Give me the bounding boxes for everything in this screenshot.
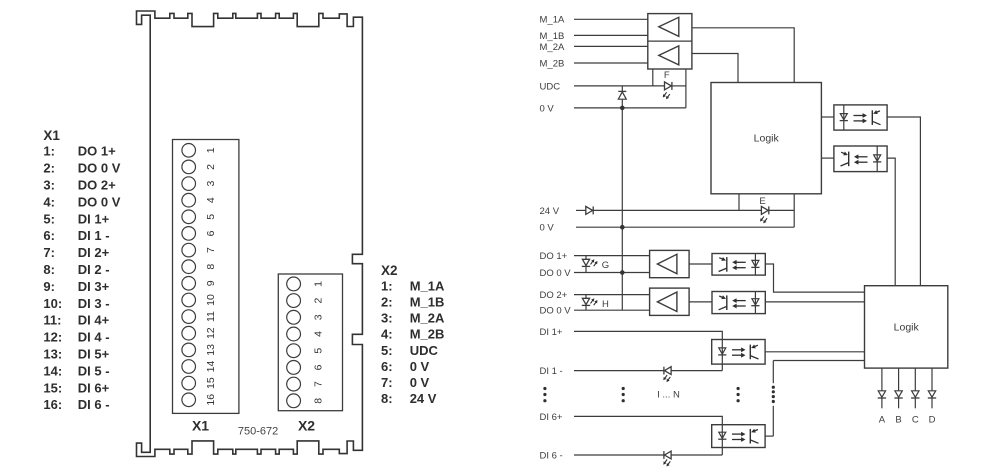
svg-text:2:: 2: bbox=[381, 295, 393, 310]
svg-text:E: E bbox=[759, 196, 765, 207]
ellipsis dots column 2 bbox=[622, 387, 625, 390]
svg-text:9:: 9: bbox=[43, 279, 55, 294]
svg-text:4:: 4: bbox=[43, 194, 55, 209]
svg-text:24 V: 24 V bbox=[410, 391, 437, 406]
svg-text:0 V: 0 V bbox=[540, 103, 555, 114]
wire 24V rail bbox=[576, 209, 586, 211]
svg-text:DI 1 -: DI 1 - bbox=[540, 366, 563, 377]
LED G light arrows bbox=[591, 261, 594, 264]
svg-text:4: 4 bbox=[205, 197, 217, 203]
svg-text:DI 3+: DI 3+ bbox=[78, 279, 110, 294]
svg-text:Logik: Logik bbox=[894, 321, 920, 333]
svg-text:DI 4 -: DI 4 - bbox=[78, 330, 110, 345]
wire U2 ground stub to 0V bbox=[793, 194, 795, 227]
svg-text:DO 0 V: DO 0 V bbox=[78, 161, 121, 176]
svg-text:DI 5+: DI 5+ bbox=[78, 347, 110, 362]
svg-text:6:: 6: bbox=[381, 359, 393, 374]
wire U1 ch2 output to Logik U2 bbox=[692, 54, 738, 83]
wire M_1A to receiver U1 bbox=[574, 18, 648, 20]
wire 0V rail (upper) bbox=[574, 107, 686, 109]
X1 pin 2 contact bbox=[182, 160, 196, 174]
svg-text:6:: 6: bbox=[43, 228, 55, 243]
wire OK6 LED cathode down to DI 6- bbox=[721, 448, 723, 456]
X2 pin 8 contact bbox=[287, 394, 301, 408]
svg-text:16:: 16: bbox=[43, 397, 62, 412]
svg-text:15: 15 bbox=[205, 377, 217, 389]
diode D1 (UDC reverse protection) bbox=[618, 90, 626, 92]
svg-text:0 V: 0 V bbox=[410, 375, 430, 390]
svg-text:M_2B: M_2B bbox=[540, 58, 565, 69]
svg-text:M_2A: M_2A bbox=[410, 311, 445, 326]
svg-text:M_2B: M_2B bbox=[410, 327, 445, 342]
X1 pin 5 contact bbox=[182, 210, 196, 224]
ellipsis dots column 4 (bus riser) bbox=[772, 386, 775, 389]
svg-text:8:: 8: bbox=[381, 391, 393, 406]
optocoupler OK5 bbox=[712, 340, 765, 365]
X1 pin 8 contact bbox=[182, 260, 196, 274]
optocoupler OK3 bbox=[712, 254, 765, 276]
svg-text:12: 12 bbox=[205, 327, 217, 339]
svg-text:8: 8 bbox=[312, 398, 324, 404]
connector X1 body bbox=[173, 140, 239, 414]
svg-text:2: 2 bbox=[312, 298, 324, 304]
svg-text:DO 0 V: DO 0 V bbox=[540, 268, 572, 279]
junction dot DO 0V ch1 bbox=[620, 270, 625, 275]
svg-text:6: 6 bbox=[205, 230, 217, 236]
LED F light arrows bbox=[664, 92, 667, 95]
svg-text:3: 3 bbox=[312, 314, 324, 320]
svg-text:5: 5 bbox=[312, 348, 324, 354]
connector X2 body bbox=[278, 274, 342, 411]
LED DI1 light arrows bbox=[665, 375, 668, 378]
wire E cathode bbox=[769, 209, 794, 211]
X2 pin 2 contact bbox=[287, 294, 301, 308]
wire 0V rail (lower) bbox=[576, 226, 794, 228]
svg-text:DI 5 -: DI 5 - bbox=[78, 363, 110, 378]
svg-text:10: 10 bbox=[205, 294, 217, 306]
svg-text:DO 2+: DO 2+ bbox=[78, 178, 116, 193]
svg-text:A: A bbox=[879, 415, 886, 426]
svg-text:D: D bbox=[929, 415, 936, 426]
svg-text:14: 14 bbox=[205, 361, 217, 373]
svg-text:4: 4 bbox=[312, 331, 324, 337]
svg-text:DO 0 V: DO 0 V bbox=[78, 194, 121, 209]
wire DO 0V (ch1) bbox=[574, 272, 650, 274]
optocoupler OK1 bbox=[834, 105, 887, 130]
wire 24V rail continued bbox=[593, 209, 761, 211]
svg-text:DI 2 -: DI 2 - bbox=[78, 262, 110, 277]
svg-text:DI 1+: DI 1+ bbox=[78, 211, 110, 226]
wire OK2 output to Logik U5 bbox=[887, 158, 895, 286]
svg-text:3: 3 bbox=[205, 181, 217, 187]
LED F bbox=[665, 82, 672, 90]
svg-text:X1: X1 bbox=[192, 417, 209, 433]
LED DI1 (channel status) bbox=[663, 367, 665, 375]
LED E bbox=[761, 206, 768, 214]
svg-text:8:: 8: bbox=[43, 262, 55, 277]
svg-text:10:: 10: bbox=[43, 296, 62, 311]
svg-text:16: 16 bbox=[205, 394, 217, 406]
diode D2 (24V) bbox=[586, 206, 593, 214]
LED DI6 (channel status) bbox=[663, 451, 665, 459]
svg-text:I ... N: I ... N bbox=[657, 389, 680, 400]
X1 pin 15 contact bbox=[182, 376, 196, 390]
LED DI6 light arrows bbox=[665, 460, 668, 463]
wire U1 ch1 output to Logik U2 bbox=[692, 28, 794, 83]
X1 pin 9 contact bbox=[182, 277, 196, 291]
driver A2 triangle bbox=[657, 292, 677, 312]
driver A1 box bbox=[650, 250, 690, 277]
svg-text:3:: 3: bbox=[381, 311, 393, 326]
X1 pin 12 contact bbox=[182, 326, 196, 340]
LED A bbox=[881, 368, 883, 391]
wire M_2A to receiver U1 bbox=[574, 45, 648, 47]
svg-text:12:: 12: bbox=[43, 330, 62, 345]
svg-text:DI 6 -: DI 6 - bbox=[78, 397, 110, 412]
svg-text:B: B bbox=[895, 415, 901, 426]
X1 pin 1 contact bbox=[182, 144, 196, 158]
wire DO 2+ bbox=[574, 294, 650, 296]
wire DI 6- to OK6 bbox=[671, 454, 722, 456]
X1 pin 6 contact bbox=[182, 227, 196, 241]
driver A2 box bbox=[650, 288, 690, 315]
junction dot 0V lower bbox=[620, 225, 625, 230]
wire M_2B to receiver U1 bbox=[574, 62, 648, 64]
X1 pin 11 contact bbox=[182, 310, 196, 324]
LED B bbox=[898, 368, 900, 391]
wire DO 0V (ch2) bbox=[574, 309, 650, 311]
svg-text:7: 7 bbox=[312, 381, 324, 387]
svg-text:14:: 14: bbox=[43, 363, 62, 378]
X1 pin 4 contact bbox=[182, 193, 196, 207]
wire OK5 LED cathode down to DI 1- bbox=[721, 364, 723, 371]
X1 pin 14 contact bbox=[182, 360, 196, 374]
receiver U1 channel 2 triangle bbox=[659, 46, 679, 65]
svg-text:F: F bbox=[664, 70, 670, 81]
svg-text:24 V: 24 V bbox=[540, 206, 560, 217]
svg-text:M_2A: M_2A bbox=[540, 42, 565, 53]
wire F cathode to 0V stub bbox=[672, 85, 686, 87]
wire OK5 output to Logik U5 bbox=[765, 351, 864, 353]
svg-text:Logik: Logik bbox=[754, 133, 780, 145]
svg-text:5:: 5: bbox=[43, 211, 55, 226]
wire U2 supply stub to 24V bbox=[738, 194, 740, 211]
svg-text:2: 2 bbox=[205, 164, 217, 170]
svg-text:9: 9 bbox=[205, 280, 217, 286]
svg-text:3:: 3: bbox=[43, 178, 55, 193]
X2 pin 6 contact bbox=[287, 361, 301, 375]
svg-text:1:: 1: bbox=[381, 278, 393, 293]
svg-text:5: 5 bbox=[205, 214, 217, 220]
svg-text:7:: 7: bbox=[381, 375, 393, 390]
svg-text:DO 2+: DO 2+ bbox=[540, 290, 568, 301]
X1 pin 16 contact bbox=[182, 393, 196, 407]
wire A2 to OK4 bbox=[689, 301, 712, 303]
wire A1 to OK3 bbox=[689, 263, 712, 265]
svg-text:DO 0 V: DO 0 V bbox=[540, 306, 572, 317]
X1 pin 3 contact bbox=[182, 177, 196, 191]
svg-text:15:: 15: bbox=[43, 380, 62, 395]
svg-text:13:: 13: bbox=[43, 347, 62, 362]
ellipsis dots column 3 bbox=[737, 387, 740, 390]
svg-text:M_1B: M_1B bbox=[540, 31, 565, 42]
wire DI 6- bbox=[574, 454, 664, 456]
svg-text:DI 2+: DI 2+ bbox=[78, 245, 110, 260]
Logik U5 box bbox=[865, 286, 948, 368]
svg-text:6: 6 bbox=[312, 364, 324, 370]
svg-text:1:: 1: bbox=[43, 144, 55, 159]
svg-text:4:: 4: bbox=[381, 327, 393, 342]
LED E light arrows bbox=[761, 216, 764, 219]
wire stub U1 to 0V rail bbox=[685, 69, 687, 108]
svg-text:1: 1 bbox=[312, 281, 324, 287]
LED G bbox=[585, 256, 587, 260]
receiver U1 divider bbox=[648, 40, 692, 42]
svg-text:13: 13 bbox=[205, 344, 217, 356]
wire M_1B to receiver U1 bbox=[574, 34, 648, 36]
svg-text:8: 8 bbox=[205, 264, 217, 270]
wire vertical bus (UDC to DO 0V) bbox=[621, 86, 623, 92]
optocoupler OK4 bbox=[712, 292, 765, 314]
X2 pin 7 contact bbox=[287, 377, 301, 391]
X2 pin 4 contact bbox=[287, 327, 301, 341]
LED C bbox=[914, 368, 916, 391]
X2 pin 3 contact bbox=[287, 310, 301, 324]
svg-text:UDC: UDC bbox=[540, 81, 561, 92]
receiver U1 box (RS-422 inputs) bbox=[648, 14, 692, 69]
svg-text:X2: X2 bbox=[298, 417, 315, 433]
svg-text:DI 6+: DI 6+ bbox=[540, 412, 563, 423]
svg-text:X2: X2 bbox=[381, 263, 398, 278]
optocoupler OK6 bbox=[712, 425, 765, 448]
svg-text:DO 1+: DO 1+ bbox=[78, 144, 116, 159]
wire OK3 output to Logik U5 bbox=[765, 264, 864, 292]
svg-text:7: 7 bbox=[205, 247, 217, 253]
wire DI 1+ bbox=[574, 331, 722, 339]
module housing outline 750-672 bbox=[137, 11, 363, 457]
junction dot 0V upper bbox=[620, 106, 625, 111]
svg-text:0 V: 0 V bbox=[410, 359, 430, 374]
svg-text:DI 3 -: DI 3 - bbox=[78, 296, 110, 311]
svg-text:DO 1+: DO 1+ bbox=[540, 251, 568, 262]
wire DI 1- to OK5 bbox=[671, 370, 722, 372]
svg-text:DI 1 -: DI 1 - bbox=[78, 228, 110, 243]
wire DI 1- bbox=[574, 370, 664, 372]
svg-text:H: H bbox=[602, 299, 609, 310]
svg-text:1: 1 bbox=[205, 147, 217, 153]
svg-text:M_1A: M_1A bbox=[410, 278, 445, 293]
wire U2 to optocoupler OK2 bbox=[821, 157, 834, 159]
svg-text:750-672: 750-672 bbox=[238, 426, 278, 438]
svg-text:DI 4+: DI 4+ bbox=[78, 313, 110, 328]
svg-text:UDC: UDC bbox=[410, 343, 439, 358]
svg-text:0 V: 0 V bbox=[540, 223, 555, 234]
wire U2 to optocoupler OK1 bbox=[821, 116, 834, 118]
svg-text:DI 6+: DI 6+ bbox=[78, 380, 110, 395]
svg-text:7:: 7: bbox=[43, 245, 55, 260]
wire OK6 output riser to Logik U5 bbox=[765, 435, 773, 437]
svg-text:11: 11 bbox=[205, 311, 217, 322]
X1 pin 7 contact bbox=[182, 243, 196, 257]
svg-text:DI 6 -: DI 6 - bbox=[540, 450, 563, 461]
wire U1 supply stub bbox=[652, 69, 654, 86]
LED H light arrows bbox=[591, 300, 594, 303]
svg-text:X1: X1 bbox=[43, 128, 60, 143]
wire OK4 output to Logik U5 bbox=[765, 301, 864, 303]
LED H bbox=[585, 295, 587, 299]
optocoupler OK2 bbox=[834, 146, 887, 172]
LED D bbox=[931, 368, 933, 391]
X1 pin 10 contact bbox=[182, 293, 196, 307]
wire DO 1+ bbox=[574, 255, 650, 257]
X2 pin 1 contact bbox=[287, 277, 301, 291]
svg-text:11:: 11: bbox=[43, 313, 61, 328]
X2 pin 5 contact bbox=[287, 344, 301, 358]
X1 pin 13 contact bbox=[182, 343, 196, 357]
driver A1 triangle bbox=[657, 254, 677, 273]
ellipsis dots column 1 (DI channels) bbox=[543, 387, 546, 390]
svg-text:G: G bbox=[602, 260, 609, 271]
svg-text:DI 1+: DI 1+ bbox=[540, 327, 563, 338]
svg-text:5:: 5: bbox=[381, 343, 393, 358]
wire UDC rail bbox=[574, 85, 665, 87]
wire OK1 output to Logik U5 bbox=[887, 117, 920, 286]
svg-text:M_1A: M_1A bbox=[540, 15, 565, 26]
svg-text:C: C bbox=[912, 415, 919, 426]
wire DI 6+ bbox=[574, 416, 722, 424]
receiver U1 channel 1 triangle bbox=[659, 17, 679, 36]
Logik U2 box bbox=[711, 83, 821, 194]
svg-text:2:: 2: bbox=[43, 161, 55, 176]
svg-text:M_1B: M_1B bbox=[410, 295, 445, 310]
